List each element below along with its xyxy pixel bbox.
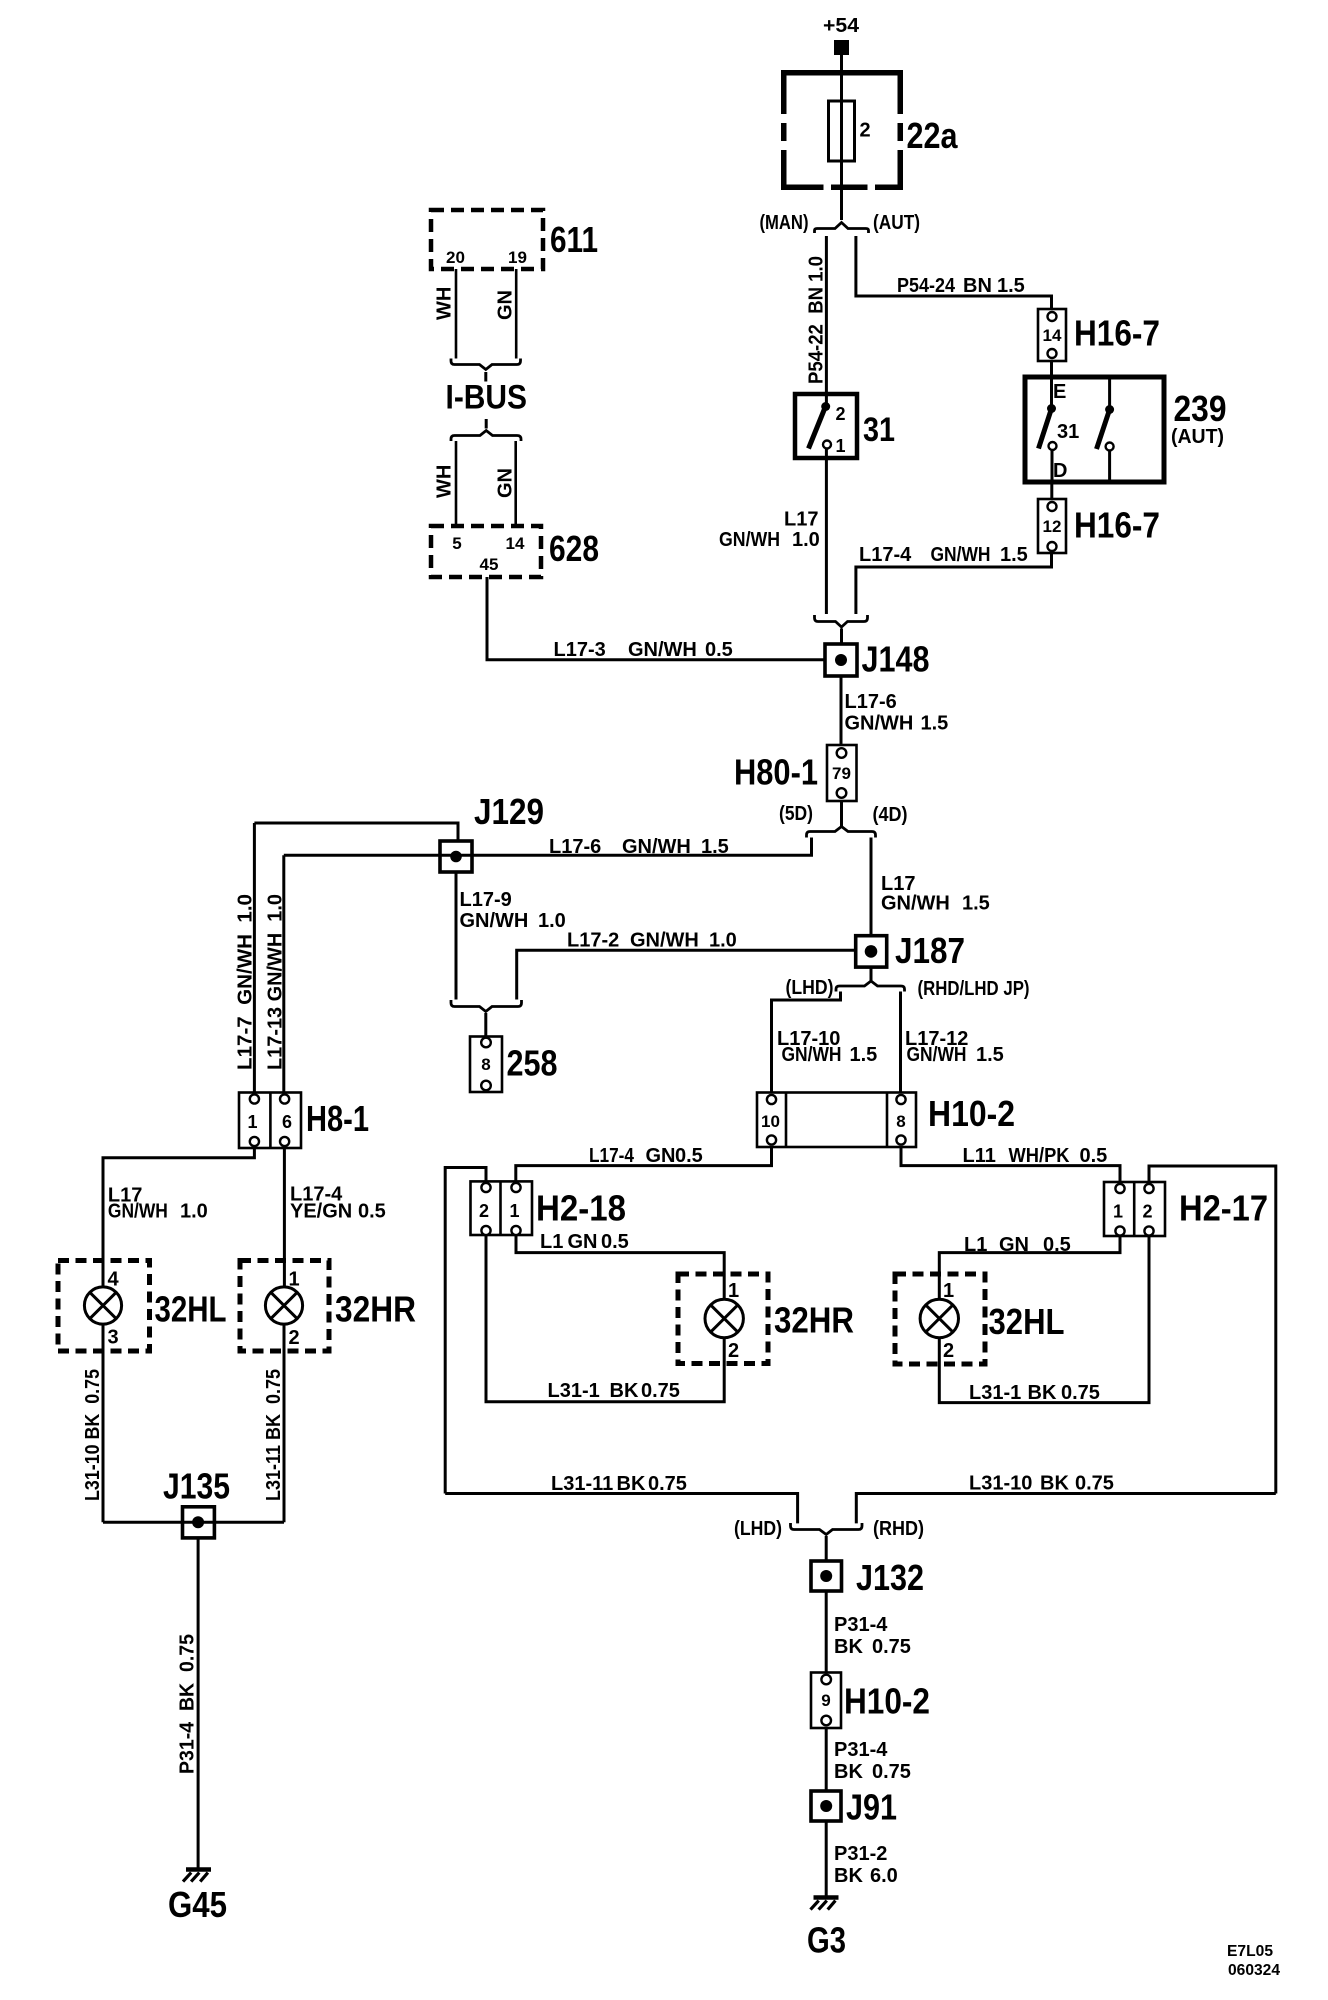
ground G3 (807, 1898, 846, 1961)
svg-text:L31-11 BK 0.75: L31-11 BK 0.75 (263, 1369, 285, 1501)
svg-text:239: 239 (1174, 388, 1227, 429)
wire from +54 through fuse 22a (840, 55, 843, 220)
dashed bus stub (484, 372, 487, 382)
wire 5D branch to J129 (284, 838, 812, 856)
wire GN from 611 pin 19 (515, 269, 518, 359)
svg-text:GN/WH: GN/WH (719, 529, 780, 551)
svg-text:H8-1: H8-1 (306, 1098, 369, 1139)
svg-text:GN: GN (568, 1231, 598, 1253)
svg-text:45: 45 (480, 555, 499, 574)
module 611 (431, 210, 598, 269)
wire P31-4 to J91 (825, 1728, 828, 1791)
svg-text:H16-7: H16-7 (1074, 505, 1160, 546)
svg-text:GN/WH: GN/WH (907, 1044, 967, 1066)
svg-text:32HL: 32HL (989, 1301, 1065, 1342)
svg-text:L11: L11 (963, 1145, 996, 1167)
wire into J135 (103, 1521, 284, 1524)
svg-text:BK: BK (834, 1636, 863, 1658)
merge brace (LHD)/(RHD) (791, 1523, 863, 1535)
svg-text:GN: GN (646, 1145, 676, 1167)
svg-text:GN/WH: GN/WH (628, 639, 697, 661)
svg-text:H2-18: H2-18 (536, 1188, 626, 1229)
wire 4D branch to J187 (870, 838, 873, 936)
svg-text:L17-4: L17-4 (859, 544, 912, 566)
svg-text:0.75: 0.75 (1061, 1382, 1100, 1404)
svg-text:BK: BK (834, 1865, 863, 1887)
wire L31-10 bottom run (856, 1494, 1276, 1524)
svg-text:611: 611 (550, 219, 598, 260)
svg-text:0.75: 0.75 (872, 1761, 911, 1783)
svg-text:5: 5 (452, 534, 461, 553)
svg-text:GN/WH: GN/WH (108, 1201, 168, 1223)
value label L17 GN/WH 1.5 (881, 873, 990, 915)
wire merge to J148 (840, 629, 843, 645)
svg-text:L31-11: L31-11 (551, 1473, 613, 1495)
value label L1 GN 0.5 (964, 1234, 1071, 1256)
wire L31-11 lamp 32HR down (283, 1324, 286, 1522)
svg-text:32HL: 32HL (155, 1289, 227, 1330)
svg-text:1: 1 (1113, 1202, 1123, 1222)
module 628 (431, 526, 599, 577)
svg-text:14: 14 (506, 534, 525, 553)
svg-text:L1: L1 (964, 1234, 987, 1256)
svg-text:628: 628 (549, 528, 599, 569)
wire L17-3 from 628 pin45 to J148 (487, 577, 825, 660)
wire L17-4 GN to H2-18 pin 1 (516, 1147, 772, 1181)
fuse box 22a (781, 70, 958, 190)
svg-text:P31-4 BK 0.75: P31-4 BK 0.75 (177, 1634, 199, 1774)
junction J135 (163, 1466, 230, 1538)
value label P54-24 BN 1.5 (897, 275, 1025, 297)
svg-text:P31-4: P31-4 (834, 1614, 888, 1636)
wire WH from 611 pin 20 (455, 269, 458, 359)
svg-text:0.5: 0.5 (1080, 1145, 1108, 1167)
value label P31-4 BK 0.75 (834, 1614, 911, 1658)
wire L17 H8-1 pin1 to lamp 32HL (103, 1148, 254, 1287)
svg-text:2: 2 (943, 1340, 954, 1362)
lamp 32HR rear right (678, 1274, 854, 1364)
svg-text:1.5: 1.5 (850, 1044, 878, 1066)
svg-text:E: E (1053, 381, 1066, 403)
svg-text:GN: GN (495, 468, 517, 498)
svg-text:L17-6: L17-6 (845, 691, 897, 713)
junction J132 (811, 1557, 924, 1598)
connector H16-7 pin 12 (1038, 499, 1160, 553)
lamp 32HL front left (58, 1261, 227, 1352)
wire 239 to H16-7 pin 12 (1050, 482, 1053, 499)
svg-text:WH/PK: WH/PK (1009, 1145, 1070, 1167)
svg-text:L31-10: L31-10 (969, 1473, 1032, 1495)
svg-text:(AUT): (AUT) (873, 212, 920, 234)
svg-text:P31-4: P31-4 (834, 1739, 888, 1761)
plate code E7L05 060324 (1227, 1943, 1280, 1979)
wire L17-7 J129 to H8-1 pin1 (253, 823, 256, 1093)
svg-text:WH: WH (434, 287, 456, 320)
value label L17-6 GN/WH 1.5 (845, 691, 949, 735)
lamp 32HR front right (240, 1261, 416, 1352)
svg-text:(MAN): (MAN) (760, 212, 809, 234)
svg-text:GN/WH: GN/WH (622, 836, 691, 858)
connector 258 pin 8 (470, 1037, 558, 1093)
wire pin14 to switch 239 (1050, 361, 1053, 382)
svg-text:D: D (1053, 460, 1067, 482)
wire H2-17 pin2 right loop down (1149, 1166, 1276, 1494)
value label L17-3 GN/WH 0.5 (554, 639, 733, 661)
connector H2-18 pins 2/1 (471, 1181, 627, 1235)
svg-text:H16-7: H16-7 (1074, 313, 1160, 354)
svg-text:1.5: 1.5 (997, 275, 1025, 297)
svg-text:1: 1 (247, 1112, 257, 1132)
svg-text:6: 6 (282, 1112, 292, 1132)
value label L31-11 BK 0.75 (551, 1473, 687, 1495)
wire H2-18 pin2 left loop down (445, 1168, 486, 1494)
wire H80-1 to 5D/4D splitter (840, 801, 843, 827)
splitter brace I-BUS bottom (451, 431, 521, 442)
merge brace above J148 (815, 615, 868, 627)
value label P31-2 BK 6.0 (834, 1843, 898, 1887)
svg-text:0.5: 0.5 (601, 1231, 629, 1253)
value label L31-1 BK 0.75 (548, 1380, 680, 1402)
value label L17 GN/WH 1.0 (719, 509, 820, 552)
svg-text:GN/WH: GN/WH (460, 910, 529, 932)
svg-text:14: 14 (1043, 326, 1062, 345)
svg-text:31: 31 (863, 411, 895, 449)
svg-text:P31-2: P31-2 (834, 1843, 887, 1865)
svg-text:1: 1 (943, 1280, 954, 1302)
wire L17-12 to H10-2 pin 8 (899, 992, 902, 1093)
wire L17-4 YE/GN H8-1 pin6 to lamp 32HR (283, 1148, 286, 1287)
svg-text:10: 10 (761, 1112, 780, 1131)
svg-text:4: 4 (108, 1269, 120, 1291)
svg-text:79: 79 (832, 764, 851, 783)
svg-text:8: 8 (896, 1112, 905, 1131)
wire L17-10 to H10-2 pin 10 (772, 992, 841, 1093)
wire L31-1 lamp 32HL to H2-17 pin2 (939, 1236, 1149, 1403)
svg-text:2: 2 (289, 1327, 300, 1349)
svg-text:0.75: 0.75 (1075, 1473, 1114, 1495)
svg-text:(RHD): (RHD) (873, 1518, 924, 1540)
svg-text:J148: J148 (862, 639, 930, 680)
wire L17-2 to J187 (517, 950, 856, 999)
value label L17 GN/WH 1.0 (108, 1185, 208, 1223)
svg-text:1.5: 1.5 (976, 1044, 1004, 1066)
connector H80-1 pin 79 (734, 745, 857, 801)
svg-text:I-BUS: I-BUS (446, 379, 528, 417)
svg-text:YE/GN: YE/GN (290, 1201, 352, 1223)
wire P31-2 J91 to G3 (825, 1821, 828, 1896)
ground G45 (168, 1870, 227, 1926)
wire L31-11 bottom run (445, 1494, 797, 1524)
junction J187 (856, 930, 965, 971)
svg-text:2: 2 (479, 1201, 489, 1221)
svg-text:J132: J132 (856, 1557, 924, 1598)
svg-text:J91: J91 (846, 1787, 897, 1828)
value label L31-1 BK 0.75 (969, 1382, 1100, 1404)
splitter brace (5D)/(4D) (807, 827, 876, 838)
svg-text:BK: BK (834, 1761, 863, 1783)
svg-text:G45: G45 (168, 1884, 227, 1925)
svg-text:GN: GN (495, 290, 517, 320)
svg-text:GN: GN (999, 1234, 1029, 1256)
svg-text:0.5: 0.5 (675, 1145, 703, 1167)
connector H10-2 pins 10/8 (757, 1093, 1015, 1148)
connector H16-7 pin 14 (1038, 309, 1160, 361)
svg-text:0.75: 0.75 (641, 1380, 680, 1402)
value label L17-2 GN/WH 1.0 (567, 930, 737, 952)
svg-text:(AUT): (AUT) (1171, 426, 1224, 448)
value label L17-4 YE/GN 0.5 (290, 1184, 386, 1223)
svg-text:1.0: 1.0 (792, 529, 820, 551)
wire L31-1 lamp 32HR to H2-18 pin2 (486, 1235, 724, 1402)
svg-text:H2-17: H2-17 (1179, 1188, 1268, 1229)
merge brace above 258 (451, 1000, 522, 1012)
svg-text:J135: J135 (163, 1466, 230, 1507)
switch module 239 (AUT) (1025, 377, 1227, 482)
svg-text:BK: BK (1040, 1473, 1069, 1495)
svg-text:(4D): (4D) (873, 804, 908, 826)
wire WH to 628 pin 5 (455, 441, 458, 526)
svg-text:19: 19 (508, 248, 527, 267)
value label L17-6 GN/WH 1.5 (549, 836, 729, 858)
svg-text:1.0: 1.0 (709, 930, 737, 952)
junction J129 (440, 791, 544, 872)
svg-text:1.5: 1.5 (962, 893, 990, 915)
svg-text:1.5: 1.5 (921, 713, 949, 735)
svg-text:WH: WH (434, 465, 456, 498)
svg-text:2: 2 (1142, 1202, 1152, 1222)
svg-text:P54-22 BN 1.0: P54-22 BN 1.0 (806, 256, 828, 384)
svg-text:0.5: 0.5 (1043, 1234, 1071, 1256)
svg-text:1: 1 (728, 1280, 739, 1302)
svg-text:2: 2 (836, 404, 846, 424)
svg-text:J187: J187 (895, 930, 965, 971)
svg-text:(RHD/LHD JP): (RHD/LHD JP) (918, 978, 1030, 1000)
svg-text:H10-2: H10-2 (928, 1093, 1015, 1134)
connector H2-17 pins 1/2 (1104, 1182, 1268, 1236)
svg-text:L17-3: L17-3 (554, 639, 606, 661)
svg-text:L17: L17 (784, 509, 818, 531)
value label P31-4 BK 0.75 (834, 1739, 911, 1783)
value label L11 WH/PK 0.5 (963, 1145, 1108, 1167)
svg-text:BK: BK (1028, 1382, 1057, 1404)
connector H8-1 pins 1/6 (239, 1093, 369, 1149)
svg-text:L17-2: L17-2 (567, 930, 619, 952)
svg-text:L17-6: L17-6 (549, 836, 601, 858)
wire P31-4 J132 to H10-2 (825, 1591, 828, 1673)
value label L1 GN 0.5 (540, 1231, 629, 1253)
svg-text:12: 12 (1043, 517, 1062, 536)
wire L1 GN H2-17 pin1 to lamp 32HL (939, 1236, 1120, 1299)
svg-text:L17-9: L17-9 (460, 889, 512, 911)
svg-text:3: 3 (108, 1327, 119, 1349)
svg-text:1.0: 1.0 (538, 910, 566, 932)
svg-text:+54: +54 (823, 15, 860, 37)
svg-text:H10-2: H10-2 (844, 1681, 930, 1722)
svg-text:P54-24: P54-24 (897, 275, 956, 297)
svg-text:9: 9 (821, 1691, 830, 1710)
svg-text:L31-10 BK 0.75: L31-10 BK 0.75 (82, 1369, 104, 1501)
svg-text:0.75: 0.75 (648, 1473, 687, 1495)
svg-text:1.0: 1.0 (180, 1201, 208, 1223)
svg-text:32HR: 32HR (774, 1300, 854, 1341)
svg-text:0.75: 0.75 (872, 1636, 911, 1658)
svg-text:L1: L1 (540, 1231, 563, 1253)
dashed bus stub (485, 419, 488, 429)
svg-text:(LHD): (LHD) (734, 1518, 782, 1540)
svg-text:258: 258 (507, 1043, 558, 1084)
value label L17-12 GN/WH 1.5 (905, 1028, 1004, 1066)
svg-text:BK: BK (610, 1380, 639, 1402)
wire P54-24 (AUT branch) (856, 236, 1052, 309)
svg-text:1.5: 1.5 (1000, 544, 1028, 566)
svg-text:31: 31 (1057, 421, 1079, 443)
svg-text:GN/WH: GN/WH (782, 1044, 842, 1066)
svg-text:6.0: 6.0 (870, 1865, 898, 1887)
wire L31-10 lamp 32HL down (102, 1324, 105, 1522)
wire merge to J132 (825, 1536, 828, 1561)
svg-text:2: 2 (860, 120, 871, 142)
svg-text:GN/WH: GN/WH (845, 713, 914, 735)
value label L31-10 BK 0.75 (969, 1473, 1114, 1495)
node +54 supply (823, 15, 860, 55)
svg-text:L17-7 GN/WH 1.0: L17-7 GN/WH 1.0 (235, 894, 257, 1070)
wire L17-13 J129 to H8-1 pin6 (282, 855, 285, 1092)
value label L17-9 GN/WH 1.0 (460, 889, 566, 932)
svg-text:1: 1 (289, 1269, 300, 1291)
svg-text:060324: 060324 (1228, 1962, 1280, 1979)
svg-text:32HR: 32HR (335, 1289, 416, 1330)
connector H10-2 pin 9 (811, 1673, 930, 1729)
svg-text:L31-1: L31-1 (548, 1380, 600, 1402)
wire L1 GN H2-18 pin1 to lamp 32HR (516, 1235, 724, 1299)
svg-text:BK: BK (617, 1473, 646, 1495)
value label L17-10 GN/WH 1.5 (777, 1028, 877, 1066)
value label L17-4 GN 0.5 (589, 1145, 703, 1167)
svg-text:8: 8 (481, 1055, 490, 1074)
svg-text:BN: BN (963, 275, 992, 297)
svg-text:GN/WH: GN/WH (931, 544, 991, 566)
svg-text:GN/WH: GN/WH (630, 930, 699, 952)
lamp 32HL rear left (895, 1274, 1065, 1364)
svg-text:0.5: 0.5 (705, 639, 733, 661)
wire L17 below switch 31 (825, 458, 828, 614)
svg-text:H80-1: H80-1 (734, 752, 818, 793)
svg-text:E7L05: E7L05 (1227, 1943, 1273, 1960)
svg-text:(5D): (5D) (779, 803, 813, 825)
svg-text:L17-4: L17-4 (589, 1145, 635, 1167)
switch 31 (795, 394, 895, 458)
merge brace I-BUS top (451, 359, 521, 370)
svg-text:20: 20 (446, 248, 465, 267)
wire J187 to LHD/RHD splitter (870, 967, 873, 981)
svg-text:0.5: 0.5 (358, 1201, 386, 1223)
svg-text:2: 2 (728, 1340, 739, 1362)
svg-text:L17-13 GN/WH 1.0: L17-13 GN/WH 1.0 (265, 894, 287, 1070)
junction J91 (811, 1787, 897, 1828)
svg-text:L31-1: L31-1 (969, 1382, 1021, 1404)
wire L17-9 J129 down (455, 872, 458, 1000)
svg-text:1: 1 (836, 436, 846, 456)
wire P31-4 J135 to G45 (197, 1538, 200, 1868)
wire GN to 628 pin 14 (514, 441, 517, 526)
svg-text:J129: J129 (474, 791, 544, 832)
wire L17-6 J148 to H80-1 (840, 676, 843, 745)
wire L17-4 pin12 to merge (856, 553, 1052, 614)
svg-text:(LHD): (LHD) (786, 977, 834, 999)
svg-text:G3: G3 (807, 1920, 846, 1961)
splitter brace (LHD)/(RHD/LHD JP) (836, 981, 905, 992)
svg-text:GN/WH: GN/WH (881, 893, 950, 915)
splitter brace (MAN)/(AUT) (815, 223, 869, 234)
wire L17-7 upper run into J129 (254, 823, 458, 841)
value label L17-4 GN/WH 1.5 (859, 544, 1028, 566)
wire P54-22 (MAN branch) (825, 236, 828, 394)
junction J148 (825, 639, 930, 680)
svg-text:1: 1 (509, 1201, 519, 1221)
wire merge to 258 (484, 1013, 487, 1037)
svg-text:22a: 22a (907, 115, 959, 156)
wire L11 WH/PK to H2-17 pin 1 (901, 1147, 1120, 1182)
svg-text:1.5: 1.5 (701, 836, 729, 858)
